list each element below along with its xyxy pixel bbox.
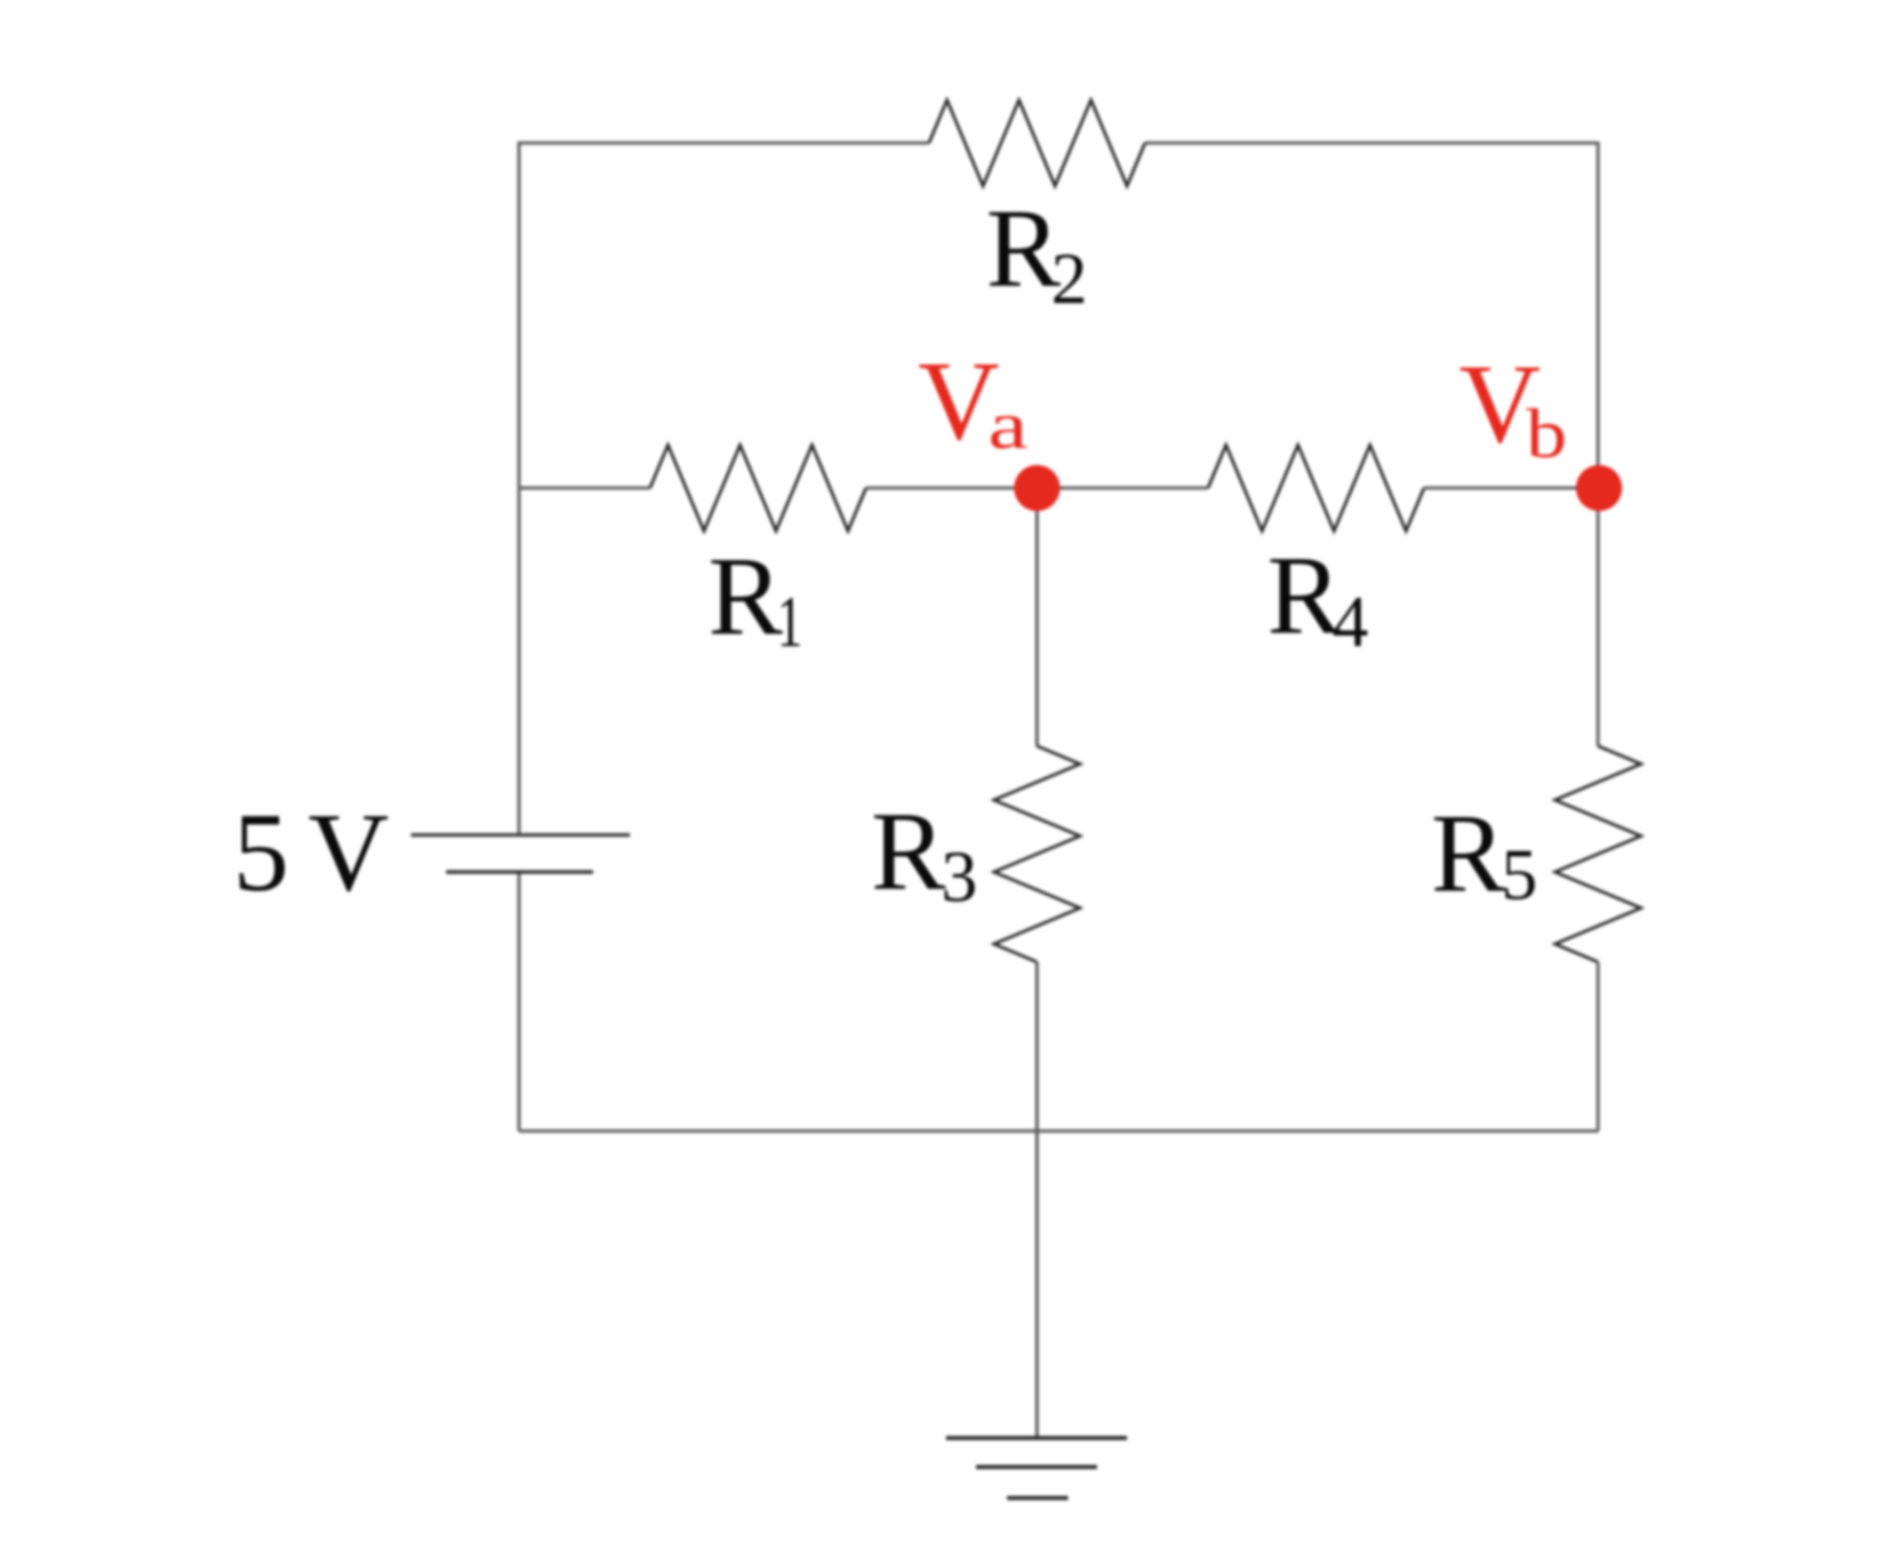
svg-text:4: 4: [1332, 581, 1369, 662]
label Va: [918, 339, 1028, 464]
resistor R2: [929, 100, 1145, 186]
wire: bottom wire: [519, 1129, 1598, 1132]
node Va: [1014, 465, 1060, 511]
node Vb: [1576, 465, 1622, 511]
label R5: [1431, 792, 1538, 916]
wire: Va drop to R3: [1035, 488, 1038, 746]
wire: R3 bottom to ground stem: [1035, 962, 1038, 1438]
label 5 V (battery value): [233, 791, 389, 915]
svg-text:5: 5: [233, 791, 289, 915]
svg-text:1: 1: [777, 581, 803, 662]
wire: top wire left segment: [519, 143, 929, 488]
svg-text:R: R: [1267, 534, 1342, 658]
svg-text:b: b: [1526, 395, 1567, 472]
label R3: [871, 790, 978, 917]
resistor R5: [1555, 746, 1641, 962]
battery V1 top plate: [411, 833, 630, 836]
wire: R5 bottom lead: [1596, 962, 1599, 1131]
wire: left wire lower (battery to bottom): [517, 872, 520, 1131]
svg-text:V: V: [308, 791, 389, 915]
svg-text:R: R: [708, 535, 783, 659]
ground: [946, 1438, 1127, 1498]
svg-text:a: a: [988, 388, 1028, 463]
resistor R4: [1208, 445, 1424, 531]
svg-text:2: 2: [1051, 238, 1088, 319]
resistor R3: [994, 746, 1080, 962]
label R2: [986, 187, 1088, 319]
svg-text:3: 3: [941, 836, 978, 917]
wire: top wire right segment: [1145, 143, 1598, 746]
svg-text:R: R: [1431, 792, 1506, 916]
wire: middle branch left: [519, 486, 650, 489]
label Vb: [1459, 342, 1567, 473]
wire: middle branch between R1 and R4: [866, 486, 1208, 489]
svg-text:R: R: [871, 790, 946, 914]
wire: middle branch right to Vb: [1424, 486, 1598, 489]
battery V1 bottom plate: [446, 870, 593, 874]
label R4: [1267, 534, 1369, 662]
svg-text:5: 5: [1501, 834, 1538, 915]
wire: left wire battery top lead: [517, 488, 520, 835]
label R1: [708, 535, 803, 662]
svg-text:R: R: [986, 187, 1061, 311]
resistor R1: [650, 445, 866, 531]
